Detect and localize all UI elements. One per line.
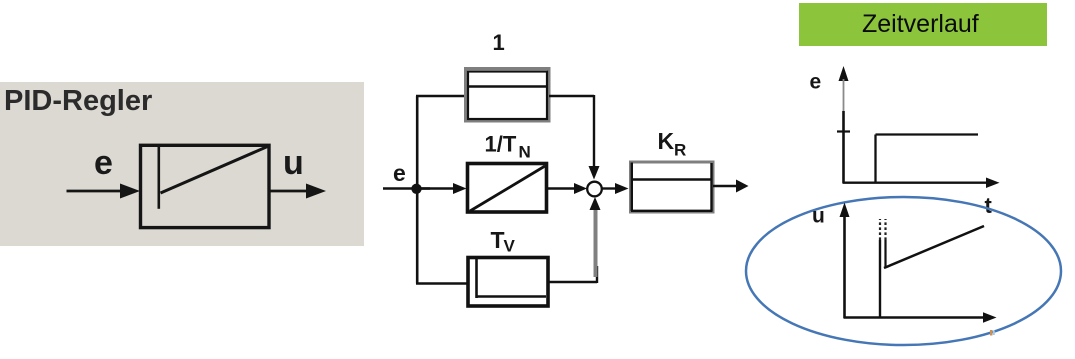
plot2 x-axis (844, 316, 985, 318)
blue ellipse (746, 197, 1061, 345)
arrow down into sum (589, 166, 600, 180)
svg-text:V: V (504, 237, 516, 256)
block 1/TN diagonal symbol (470, 166, 545, 211)
svg-text:N: N (519, 143, 531, 162)
plot2 impulse solid vertical (879, 240, 881, 318)
svg-text:K: K (658, 128, 675, 154)
plot1 y-axis upper gray (843, 79, 845, 111)
block TV (468, 258, 548, 307)
svg-text:R: R (674, 141, 686, 160)
block TV symbol base line (476, 295, 546, 298)
input wire e (383, 187, 430, 189)
bottom branch wire to TV block (416, 282, 468, 284)
wire 1/TN to sum arrow (547, 187, 575, 189)
output arrow (left panel) (269, 190, 308, 193)
svg-text:1: 1 (493, 30, 505, 55)
svg-text:e: e (393, 160, 406, 186)
plot1 step vertical (874, 135, 876, 184)
block KR symbol line (632, 178, 712, 180)
block KR black left edge (631, 163, 633, 212)
plot2 second vertical (884, 240, 886, 268)
block TV symbol impulse (475, 259, 478, 298)
svg-text:PID-Regler: PID-Regler (4, 85, 152, 117)
arrow into 1/TN block (417, 187, 455, 189)
block KR black right edge (710, 163, 712, 211)
plot2 dashed impulse left (879, 219, 881, 240)
plot1 y-axis arrowhead (839, 66, 849, 81)
svg-text:e: e (94, 144, 113, 182)
plot1 x-axis arrowhead (986, 178, 1000, 189)
corner vertical black (596, 266, 598, 283)
plot1 x-axis (843, 181, 988, 183)
output arrowhead (736, 180, 749, 193)
plot2 y-axis (843, 215, 846, 318)
svg-text:T: T (491, 227, 505, 253)
summing junction circle (587, 182, 602, 197)
output wire of KR (713, 185, 737, 188)
arrow right into sum (574, 183, 587, 194)
plot2 x-axis arrowhead (983, 312, 997, 323)
svg-text:u: u (283, 144, 304, 182)
block PID (141, 145, 270, 227)
block 1 symbol line (467, 85, 548, 87)
block KR gray border (631, 162, 714, 212)
arrow up into sum (590, 197, 601, 210)
PID symbol impulse line (158, 147, 161, 209)
block KR black bottom edge (631, 210, 713, 212)
banner Zeitverlauf (799, 3, 1047, 46)
panel PID-Regler background (0, 82, 364, 246)
svg-text:1/T: 1/T (485, 132, 517, 157)
plot2 dashed impulse right (884, 219, 886, 240)
plot1 y-axis lower black (842, 111, 845, 183)
plot1 step horizontal (876, 133, 979, 135)
arrow into KR (615, 183, 629, 194)
PID symbol ramp line (161, 147, 268, 194)
wire block 1 to corner (549, 95, 594, 97)
plot2 y-axis arrowhead (840, 203, 850, 218)
plot1 tick on y-axis (837, 130, 850, 132)
node dot e (411, 184, 421, 194)
block 1 black inner rect (468, 72, 547, 120)
gray vertical wire up to sum (594, 205, 598, 277)
svg-text:u: u (812, 205, 825, 228)
plot2 ramp (884, 226, 984, 268)
plot2 label t faint (990, 330, 992, 336)
input arrow (left panel) (67, 190, 123, 193)
block 1/TN (468, 164, 547, 213)
svg-text:Zeitverlauf: Zeitverlauf (862, 10, 979, 38)
block 1 gray border (466, 69, 550, 122)
wire sum to KR arrow (602, 187, 616, 189)
wire TV to corner (548, 281, 597, 283)
vertical wire down to sum (593, 95, 595, 168)
branch vertical wire (left) (416, 96, 419, 284)
top branch wire to block 1 (416, 95, 466, 97)
svg-text:e: e (810, 71, 822, 94)
svg-text:t: t (985, 193, 993, 218)
